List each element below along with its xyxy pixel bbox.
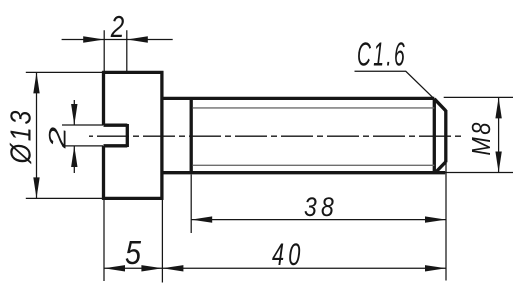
svg-text:2: 2	[44, 127, 71, 150]
thread minor diameter lines	[193, 108, 435, 165]
chamfer leader C1.6	[355, 71, 434, 98]
screw head outline	[102, 71, 446, 200]
arrow: dim 40 left (points left)	[162, 265, 183, 271]
M8 extension lines	[444, 97, 513, 172]
svg-text:38: 38	[304, 192, 338, 222]
slot width dim 2: extension lines	[62, 125, 103, 146]
thread start line	[190, 98, 193, 172]
arrow: M8 top (points up)	[495, 97, 501, 118]
head height dim 5: extension lines	[104, 200, 162, 283]
svg-text:Ø13: Ø13	[6, 108, 38, 164]
dim line 5 and 40	[104, 267, 446, 269]
slot depth dim 2: dimension line	[62, 39, 173, 41]
screwdriver slot notch	[104, 124, 128, 147]
M8 dimension line	[498, 97, 500, 172]
centerline	[89, 135, 462, 137]
dim line 38	[191, 219, 446, 221]
arrow: slot width top (points down)	[71, 104, 77, 125]
arrow: dim 40 right (points right)	[425, 265, 446, 271]
tip extension line for 38/40	[445, 161, 447, 281]
arrow: dim 5 left (points left)	[104, 265, 125, 271]
tip face	[444, 110, 447, 162]
arrow: dia13 bottom (points down)	[33, 177, 39, 198]
svg-text:40: 40	[272, 236, 305, 272]
shank outline	[164, 98, 446, 172]
arrow: top dim 2 left (points right)	[83, 36, 104, 42]
arrow: dia13 top (points up)	[33, 72, 39, 93]
arrow: top dim 2 right (points left)	[127, 36, 148, 42]
chamfer top diagonal	[434, 99, 446, 111]
arrowheads	[33, 36, 502, 271]
chamfer bottom diagonal	[436, 162, 446, 173]
arrow: dim 5 right (points right)	[141, 265, 162, 271]
dimension lines (thin)	[26, 30, 513, 282]
arrow: dim 38 right (points right)	[425, 216, 446, 222]
arrow: dim 38 left (points left)	[191, 216, 212, 222]
svg-text:C1.6: C1.6	[357, 37, 407, 74]
slot depth dim 2: extension lines above head	[104, 30, 127, 71]
dia 13 dimension line	[36, 72, 38, 198]
arrow: slot width bottom (points up)	[71, 146, 77, 167]
svg-text:M8: M8	[466, 120, 496, 156]
thread length dim 38: extension line	[190, 175, 192, 234]
dia 13 extension lines	[26, 72, 103, 198]
chamfer start line	[433, 98, 436, 172]
slot width dim 2: dimension line	[73, 100, 75, 173]
arrow: M8 bottom (points down)	[495, 152, 501, 173]
svg-text:5: 5	[125, 234, 142, 271]
svg-text:2: 2	[110, 9, 124, 44]
